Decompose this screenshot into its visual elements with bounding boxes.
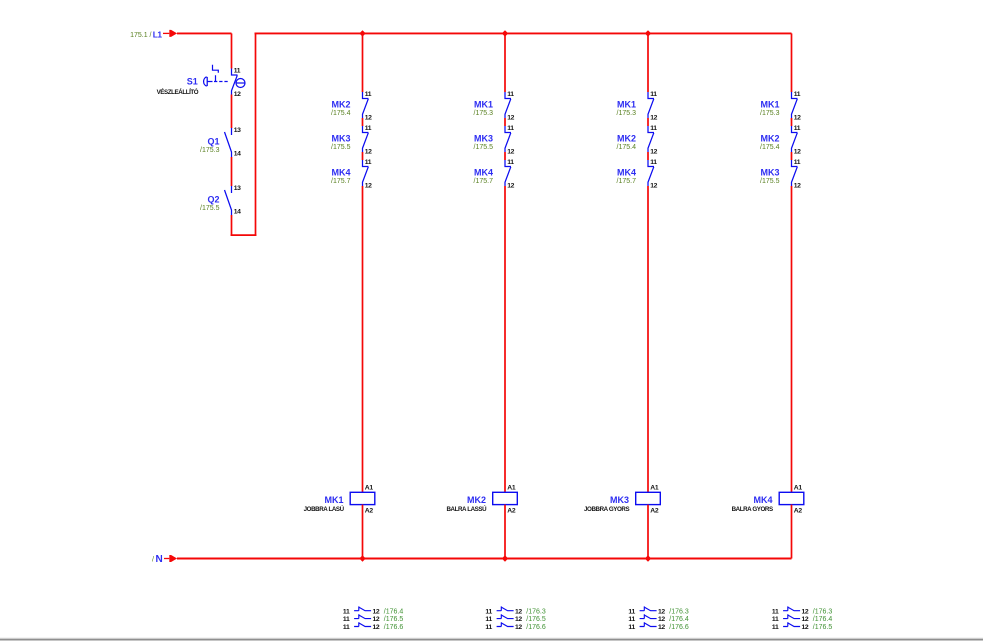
- svg-text:JOBBRA LASÚ: JOBBRA LASÚ: [304, 506, 345, 513]
- S1 mushroom actuator with latch, dashed link: [204, 65, 229, 86]
- svg-text:11: 11: [365, 125, 372, 132]
- wire coil MK1 to N: [362, 505, 364, 559]
- contact MK4 NC, pins 11/12 (branch 1): [363, 159, 373, 189]
- svg-text:/175.4: /175.4: [331, 110, 351, 117]
- contact MK3 NC, pins 11/12 (branch 1): [363, 125, 373, 155]
- wire bottom jog of safety chain: [231, 234, 257, 236]
- wire left chain: L1 down to S1: [231, 33, 233, 68]
- svg-text:S1: S1: [187, 77, 198, 87]
- contact MK1 NC, pins 11/12 (branch 3): [648, 91, 658, 121]
- label MK1 JOBBRA LASÚ: [304, 495, 345, 513]
- mirror contact list of coil MK2: [485, 606, 545, 631]
- svg-text:12: 12: [650, 148, 657, 155]
- svg-text:12: 12: [365, 114, 372, 121]
- svg-text:14: 14: [234, 209, 241, 216]
- svg-text:11: 11: [794, 91, 801, 98]
- wire between contacts: [791, 118, 793, 126]
- svg-text:11: 11: [650, 91, 657, 98]
- svg-text:13: 13: [234, 127, 241, 134]
- svg-text:11: 11: [343, 608, 350, 615]
- wire branch 3: L1 down to first contact: [647, 33, 649, 92]
- svg-text:MK1: MK1: [474, 100, 493, 110]
- label MK1 /175.3: [760, 100, 780, 117]
- svg-text:11: 11: [365, 91, 372, 98]
- label Q1 /175.3: [200, 137, 220, 155]
- junction branch 1 / N: [359, 555, 365, 561]
- net label 175.1 / L1: [130, 29, 162, 39]
- label MK4 /175.7: [617, 168, 637, 185]
- svg-text:/176.5: /176.5: [384, 616, 404, 623]
- contact MK2 NC, pins 11/12 (branch 4): [792, 125, 802, 155]
- svg-text:A2: A2: [650, 508, 659, 515]
- contact MK3 NC, pins 11/12 (branch 2): [505, 125, 515, 155]
- svg-text:MK2: MK2: [760, 134, 779, 144]
- S1 twist-to-release symbol: [236, 79, 245, 88]
- label MK3 /175.5: [331, 134, 351, 151]
- svg-text:12: 12: [650, 182, 657, 189]
- svg-text:/175.4: /175.4: [617, 144, 637, 151]
- svg-text:BALRA GYORS: BALRA GYORS: [732, 506, 773, 513]
- contact MK1 NC, pins 11/12 (branch 4): [792, 91, 802, 121]
- svg-text:MK3: MK3: [474, 134, 493, 144]
- wire safety chain return up to L1: [255, 33, 257, 236]
- label S1 VÉSZLEÁLLÍTÓ: [157, 77, 199, 96]
- svg-text:11: 11: [628, 616, 635, 623]
- svg-text:12: 12: [650, 114, 657, 121]
- junction branch 2 / N: [502, 555, 508, 561]
- wire last contact to coil MK4: [791, 186, 793, 492]
- contact MK1 NC, pins 11/12 (branch 2): [505, 91, 515, 121]
- svg-text:11: 11: [650, 125, 657, 132]
- junction branch 1 / L1: [359, 30, 365, 36]
- svg-text:MK4: MK4: [331, 168, 350, 178]
- svg-text:/175.7: /175.7: [617, 178, 637, 185]
- contact MK3 NC, pins 11/12 (branch 4): [792, 159, 802, 189]
- source arrow L1: [163, 30, 177, 37]
- wire between contacts: [791, 152, 793, 160]
- wire branch 2: L1 down to first contact: [504, 33, 506, 92]
- svg-text:/176.6: /176.6: [526, 624, 546, 631]
- svg-text:11: 11: [507, 159, 514, 166]
- junction branch 2 / L1: [502, 30, 508, 36]
- net label / N: [152, 554, 163, 565]
- contact Q2 NO, pins 13/14: [225, 185, 242, 215]
- svg-text:Q2: Q2: [207, 195, 219, 205]
- wire Q1 to Q2: [231, 157, 233, 186]
- label MK4 /175.7: [474, 168, 494, 185]
- svg-text:11: 11: [234, 68, 241, 75]
- svg-text:MK1: MK1: [324, 495, 343, 505]
- svg-text:A1: A1: [794, 485, 803, 492]
- svg-text:/176.6: /176.6: [669, 624, 689, 631]
- svg-text:12: 12: [373, 608, 380, 615]
- svg-text:MK4: MK4: [753, 495, 772, 505]
- svg-text:12: 12: [802, 608, 809, 615]
- svg-text:12: 12: [658, 608, 665, 615]
- svg-text:13: 13: [234, 185, 241, 192]
- svg-text:12: 12: [802, 616, 809, 623]
- svg-text:MK4: MK4: [617, 168, 636, 178]
- label MK4 /175.7: [331, 168, 351, 185]
- svg-text:VÉSZLEÁLLÍTÓ: VÉSZLEÁLLÍTÓ: [157, 88, 199, 96]
- bottom window edge strip: [0, 638, 983, 641]
- svg-text:/176.4: /176.4: [669, 616, 689, 623]
- label MK2 /175.4: [331, 100, 351, 117]
- svg-text:12: 12: [373, 616, 380, 623]
- svg-text:L1: L1: [153, 29, 163, 39]
- junction branch 3 / N: [645, 555, 651, 561]
- svg-text:/175.3: /175.3: [617, 110, 637, 117]
- wire branch 4: L1 down to first contact: [791, 33, 793, 92]
- svg-text:12: 12: [515, 616, 522, 623]
- mirror contact list of coil MK4: [772, 606, 832, 631]
- svg-text:/175.5: /175.5: [200, 205, 220, 212]
- svg-text:MK3: MK3: [331, 134, 350, 144]
- svg-text:A2: A2: [507, 508, 516, 515]
- svg-text:A2: A2: [365, 508, 374, 515]
- coil MK1, pins A1/A2: [350, 485, 375, 515]
- svg-text:/176.3: /176.3: [813, 608, 833, 615]
- svg-text:12: 12: [658, 624, 665, 631]
- contact MK4 NC, pins 11/12 (branch 3): [648, 159, 658, 189]
- wire L1 rail (left segment to S1 chain): [177, 32, 232, 34]
- svg-text:11: 11: [794, 159, 801, 166]
- svg-text:12: 12: [507, 148, 514, 155]
- contact MK4 NC, pins 11/12 (branch 2): [505, 159, 515, 189]
- svg-text:/175.5: /175.5: [474, 144, 494, 151]
- wire between contacts: [362, 152, 364, 160]
- svg-text:MK3: MK3: [610, 495, 629, 505]
- svg-text:11: 11: [343, 616, 350, 623]
- svg-text:/: /: [152, 556, 154, 563]
- svg-text:N: N: [156, 554, 163, 565]
- label MK3 /175.5: [474, 134, 494, 151]
- svg-text:A1: A1: [650, 485, 659, 492]
- mirror contact list of coil MK1: [343, 606, 403, 631]
- svg-text:12: 12: [794, 114, 801, 121]
- label Q2 /175.5: [200, 195, 220, 213]
- junction branch 3 / L1: [645, 30, 651, 36]
- svg-text:/176.4: /176.4: [384, 608, 404, 615]
- svg-text:11: 11: [772, 616, 779, 623]
- svg-text:12: 12: [365, 148, 372, 155]
- wire coil MK3 to N: [647, 505, 649, 559]
- wire between contacts: [504, 152, 506, 160]
- svg-text:/175.7: /175.7: [474, 178, 494, 185]
- wire last contact to coil MK3: [647, 186, 649, 492]
- svg-text:12: 12: [373, 624, 380, 631]
- coil MK2, pins A1/A2: [493, 485, 518, 515]
- label MK2 /175.4: [617, 134, 637, 151]
- svg-text:MK3: MK3: [760, 168, 779, 178]
- svg-text:MK1: MK1: [760, 100, 779, 110]
- label MK2 BALRA LASSÚ: [446, 495, 487, 513]
- source arrow N: [164, 555, 177, 562]
- svg-text:/176.5: /176.5: [526, 616, 546, 623]
- svg-text:/175.5: /175.5: [331, 144, 351, 151]
- svg-text:12: 12: [234, 91, 241, 98]
- label MK4 BALRA GYORS: [732, 495, 773, 513]
- wire coil MK4 to N: [791, 505, 793, 559]
- svg-text:/176.6: /176.6: [384, 624, 404, 631]
- svg-text:MK2: MK2: [617, 134, 636, 144]
- svg-text:12: 12: [507, 114, 514, 121]
- svg-text:A1: A1: [507, 485, 516, 492]
- label MK3 /175.5: [760, 168, 780, 185]
- svg-text:14: 14: [234, 151, 241, 158]
- svg-text:11: 11: [628, 608, 635, 615]
- svg-text:/176.3: /176.3: [669, 608, 689, 615]
- coil MK4, pins A1/A2: [779, 485, 804, 515]
- svg-text:11: 11: [507, 91, 514, 98]
- svg-text:12: 12: [658, 616, 665, 623]
- wire coil MK2 to N: [504, 505, 506, 559]
- wire Q2 to bottom jog: [231, 215, 233, 236]
- svg-text:/175.3: /175.3: [200, 147, 220, 154]
- contact MK2 NC, pins 11/12 (branch 1): [363, 91, 373, 121]
- svg-text:/175.3: /175.3: [760, 110, 780, 117]
- wire last contact to coil MK1: [362, 186, 364, 492]
- svg-text:BALRA LASSÚ: BALRA LASSÚ: [446, 506, 487, 513]
- svg-text:12: 12: [515, 624, 522, 631]
- svg-text:MK2: MK2: [467, 495, 486, 505]
- svg-text:12: 12: [794, 182, 801, 189]
- svg-text:12: 12: [802, 624, 809, 631]
- svg-text:11: 11: [628, 624, 635, 631]
- label MK3 JOBBRA GYORS: [584, 495, 629, 513]
- svg-text:/176.3: /176.3: [526, 608, 546, 615]
- coil MK3, pins A1/A2: [636, 485, 661, 515]
- contact MK2 NC, pins 11/12 (branch 3): [648, 125, 658, 155]
- svg-text:11: 11: [772, 608, 779, 615]
- wire between contacts: [504, 118, 506, 126]
- svg-text:11: 11: [507, 125, 514, 132]
- svg-text:11: 11: [365, 159, 372, 166]
- svg-text:MK1: MK1: [617, 100, 636, 110]
- wire N rail: [177, 558, 792, 560]
- svg-text:12: 12: [794, 148, 801, 155]
- svg-text:/175.7: /175.7: [331, 178, 351, 185]
- wire branch 1: L1 down to first contact: [362, 33, 364, 92]
- svg-text:A1: A1: [365, 485, 374, 492]
- svg-text:175.1 /: 175.1 /: [130, 32, 151, 39]
- svg-text:12: 12: [507, 182, 514, 189]
- svg-text:11: 11: [485, 608, 492, 615]
- svg-text:12: 12: [515, 608, 522, 615]
- label MK2 /175.4: [760, 134, 780, 151]
- svg-text:11: 11: [794, 125, 801, 132]
- svg-text:A2: A2: [794, 508, 803, 515]
- svg-text:11: 11: [772, 624, 779, 631]
- svg-text:MK2: MK2: [331, 100, 350, 110]
- wire between contacts: [362, 118, 364, 126]
- svg-text:/175.3: /175.3: [474, 110, 494, 117]
- svg-text:12: 12: [365, 182, 372, 189]
- svg-text:11: 11: [650, 159, 657, 166]
- wire between contacts: [647, 152, 649, 160]
- wire S1 to Q1: [231, 95, 233, 129]
- label MK1 /175.3: [617, 100, 637, 117]
- svg-text:JOBBRA GYORS: JOBBRA GYORS: [584, 506, 629, 513]
- mirror contact list of coil MK3: [628, 606, 688, 631]
- svg-text:/176.4: /176.4: [813, 616, 833, 623]
- wire last contact to coil MK2: [504, 186, 506, 492]
- contact Q1 NO, pins 13/14: [225, 127, 242, 157]
- svg-text:/175.5: /175.5: [760, 178, 780, 185]
- svg-text:11: 11: [485, 616, 492, 623]
- switch S1 emergency stop NC contact, pins 11/12: [232, 68, 242, 98]
- svg-text:11: 11: [485, 624, 492, 631]
- wire between contacts: [647, 118, 649, 126]
- svg-text:MK4: MK4: [474, 168, 493, 178]
- svg-text:Q1: Q1: [207, 137, 219, 147]
- label MK1 /175.3: [474, 100, 494, 117]
- svg-text:/176.5: /176.5: [813, 624, 833, 631]
- wire L1 rail (main, right of safety chain): [255, 32, 792, 34]
- svg-text:/175.4: /175.4: [760, 144, 780, 151]
- svg-text:11: 11: [343, 624, 350, 631]
